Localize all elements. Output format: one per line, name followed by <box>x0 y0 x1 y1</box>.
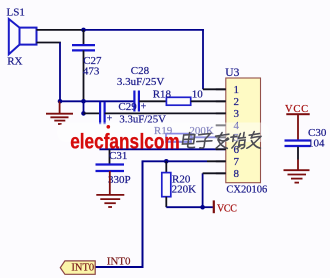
svg-text:10: 10 <box>192 88 204 100</box>
svg-text:+: + <box>141 102 147 113</box>
wire R19 to pin5 <box>191 136 226 138</box>
ground below C30 <box>284 170 310 182</box>
svg-text:RX: RX <box>7 55 22 67</box>
wire C28 to R18 <box>139 100 167 102</box>
junction dot row3 <box>81 111 86 116</box>
wire speaker top to junction <box>37 29 85 31</box>
wire R18 to pin2 <box>191 100 226 102</box>
wire speaker bottom down <box>59 43 61 102</box>
wire row7 down to INT0 <box>142 160 144 267</box>
pin stubs 1-8 <box>216 89 226 173</box>
capacitor C29 <box>100 101 166 126</box>
ground below C31 <box>96 171 124 207</box>
wire row7 black to chip <box>207 160 226 162</box>
wire R20 bottom to VCC junction <box>166 206 202 208</box>
svg-text:LS1: LS1 <box>7 7 25 19</box>
resistor R20 <box>162 161 196 207</box>
capacitor C31 <box>96 149 131 186</box>
junction dot R20 top <box>164 159 169 164</box>
svg-text:R18: R18 <box>153 88 172 100</box>
capacitor C30 <box>285 127 327 170</box>
junction dot row2/C27 <box>81 99 86 104</box>
net flag INT0 <box>60 261 95 274</box>
pin numbers 1-8 <box>234 84 240 180</box>
wire C29 to pin3 <box>105 112 226 114</box>
watermark chinese characters <box>182 132 263 149</box>
ground below speaker <box>46 101 73 124</box>
svg-text:VCC: VCC <box>217 203 237 214</box>
resistor R19 <box>154 125 214 142</box>
svg-text:2: 2 <box>234 96 240 108</box>
wire speaker bottom <box>37 42 61 44</box>
svg-text:CX20106: CX20106 <box>226 184 267 195</box>
junction dot VCC node <box>200 205 205 210</box>
svg-text:473: 473 <box>83 66 100 78</box>
svg-text:INT0: INT0 <box>71 263 94 274</box>
svg-text:elecfanslcom: elecfanslcom <box>70 131 179 154</box>
svg-text:U3: U3 <box>225 67 239 79</box>
watermark band <box>57 123 269 143</box>
wire to pin 1 <box>203 88 226 90</box>
svg-text:3.3uF/25V: 3.3uF/25V <box>117 76 164 88</box>
capacitor C27 <box>72 30 102 101</box>
power port VCC top right <box>285 104 310 140</box>
wire pin8 down to VCC node <box>202 173 204 207</box>
wire INT0 horizontal <box>95 266 143 268</box>
watermark text elecfans|com <box>70 125 179 154</box>
svg-text:220K: 220K <box>172 183 197 195</box>
svg-text:330P: 330P <box>108 174 131 186</box>
junction dot ground node <box>58 99 63 104</box>
pin stub pin4 <box>216 124 226 126</box>
power port VCC lower <box>203 200 238 214</box>
wire row7 corner to pin7 <box>143 160 208 162</box>
svg-text:104: 104 <box>308 137 325 149</box>
wire row3 to C29 <box>84 112 101 114</box>
wire row6 to pin6 <box>99 148 225 150</box>
svg-text:1: 1 <box>234 84 240 96</box>
capacitor C28 <box>117 65 164 113</box>
wire junction to corner <box>84 29 204 31</box>
svg-text:C29: C29 <box>118 101 137 113</box>
wire corner down to pin1 row <box>202 29 204 89</box>
svg-text:INT0: INT0 <box>107 256 131 268</box>
wire row2 down to row3 <box>83 101 85 113</box>
svg-text:8: 8 <box>234 168 240 180</box>
junction dot at C27 top <box>81 28 86 33</box>
wire row2 to C28 <box>60 100 134 102</box>
speaker LS1 <box>9 19 37 54</box>
wire pin8 <box>203 172 226 174</box>
chip U3 <box>225 67 267 196</box>
resistor R18 <box>153 88 204 105</box>
svg-text:3: 3 <box>234 108 240 120</box>
svg-text:7: 7 <box>234 156 240 168</box>
